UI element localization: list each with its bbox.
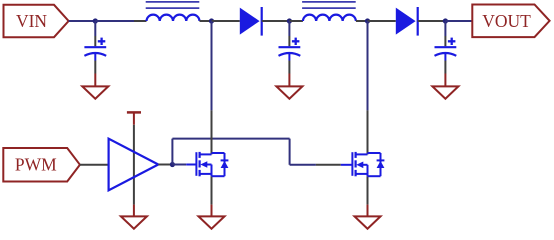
pin U1 output (158, 164, 172, 166)
capacitor C2 (279, 38, 301, 61)
wire gate bus horizontal (172, 138, 289, 140)
wire node F to Q1 gate (172, 164, 186, 166)
capacitor C3 (435, 38, 457, 61)
pin Q1 drain (211, 110, 213, 154)
ground under Q1 (199, 216, 225, 228)
power symbol VCC (T-bar) (127, 112, 141, 124)
pin C3 top (444, 36, 446, 46)
ground under Q2 (355, 216, 381, 228)
node C (D1/C2/L2 junction) (287, 18, 292, 23)
pin D2 cathode (418, 20, 446, 22)
ground under U1 (121, 216, 147, 228)
wire node E to VOUT (445, 20, 472, 22)
pin L2 left (289, 20, 303, 22)
svg-text:VOUT: VOUT (482, 11, 531, 31)
pin U1 power/ground vertical (133, 125, 135, 205)
transistor Q1 (186, 152, 228, 176)
diode D2 (396, 7, 418, 36)
port VIN (4, 5, 69, 37)
port VOUT (472, 5, 549, 38)
pin D2 anode (368, 20, 396, 22)
wire node C down to C2 (288, 21, 290, 36)
pin Q2 drain (367, 110, 369, 154)
wire node A down to C1 (94, 21, 96, 36)
ground stem under Q2 (367, 205, 369, 217)
node A (VIN/C1 junction) (93, 18, 98, 23)
wire node A to L1 (95, 20, 134, 22)
pin L1 right (200, 20, 212, 22)
ground under C1 (82, 86, 108, 98)
wire node F up (171, 139, 173, 165)
pin C2 bottom (288, 61, 290, 74)
capacitor C1 (84, 38, 106, 61)
wire node B down to Q1 drain (211, 21, 213, 110)
wire node D down to Q2 drain (367, 21, 369, 110)
pin D1 anode (212, 20, 240, 22)
wire gate bus down (289, 139, 291, 165)
pin L2 right (356, 20, 368, 22)
pin U1 input (80, 164, 109, 166)
port PWM (3, 148, 80, 182)
pin C2 top (288, 36, 290, 46)
ground stem under Q1 (211, 205, 213, 217)
ground stem under C2 (288, 74, 290, 87)
ground stem under C1 (94, 74, 96, 87)
transistor Q2 (341, 152, 385, 176)
buffer U1 (109, 139, 159, 191)
pin C1 bottom (94, 61, 96, 74)
pin C3 bottom (444, 61, 446, 74)
node D (switch node 2) (365, 18, 370, 23)
pin D1 cathode (262, 20, 290, 22)
ground under C2 (276, 86, 302, 98)
wire gate bus to Q2 (290, 164, 316, 166)
inductor L1 (146, 2, 200, 21)
wire VIN to node A (69, 20, 96, 22)
wire segment to Q2 gate (316, 164, 341, 166)
node E (output junction) (443, 18, 448, 23)
pin C1 top (94, 36, 96, 46)
pin L1 left (134, 20, 147, 22)
svg-text:VIN: VIN (16, 11, 47, 31)
pin Q2 source (367, 176, 369, 204)
svg-text:PWM: PWM (15, 155, 57, 175)
ground stem under C3 (444, 74, 446, 87)
node B (switch node 1) (209, 18, 214, 23)
node F (gate node) (170, 162, 175, 167)
diode D1 (240, 7, 262, 36)
wire node E down to C3 (444, 21, 446, 36)
pin Q1 source (211, 176, 213, 204)
ground stem under U1 (133, 205, 135, 217)
ground under C3 (432, 86, 458, 98)
inductor L2 (302, 2, 356, 21)
